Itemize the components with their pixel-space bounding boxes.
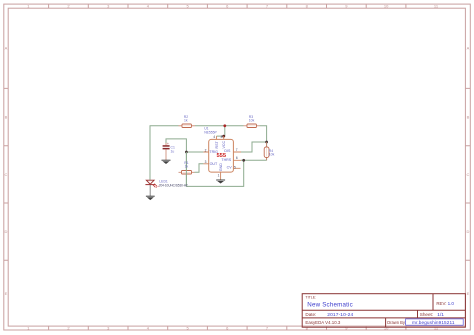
svg-text:1/1: 1/1 xyxy=(437,312,444,318)
svg-text:A: A xyxy=(5,46,8,51)
svg-text:E: E xyxy=(5,291,8,296)
svg-text:B: B xyxy=(467,115,470,120)
svg-text:OUT: OUT xyxy=(210,162,218,166)
svg-text:5: 5 xyxy=(234,165,236,169)
svg-text:TITLE:: TITLE: xyxy=(305,296,316,300)
svg-text:2017-10-24: 2017-10-24 xyxy=(327,312,353,318)
svg-text:Date:: Date: xyxy=(305,312,316,317)
svg-text:1: 1 xyxy=(218,174,220,178)
svg-text:B: B xyxy=(5,115,8,120)
svg-text:1u: 1u xyxy=(171,149,175,153)
svg-text:C: C xyxy=(5,172,8,177)
svg-text:7: 7 xyxy=(236,148,238,152)
svg-text:TRIG: TRIG xyxy=(209,150,218,154)
svg-text:D: D xyxy=(5,229,8,234)
svg-text:2: 2 xyxy=(205,148,207,152)
svg-text:A: A xyxy=(467,46,470,51)
svg-text:DIS: DIS xyxy=(224,149,231,153)
svg-text:10: 10 xyxy=(384,4,389,9)
svg-text:+: + xyxy=(167,142,169,146)
svg-text:VCC: VCC xyxy=(222,141,226,149)
svg-text:New Schematic: New Schematic xyxy=(307,301,353,308)
svg-text:C: C xyxy=(467,172,470,177)
svg-text:6: 6 xyxy=(236,156,238,160)
svg-text:CV: CV xyxy=(227,166,233,170)
svg-text:8: 8 xyxy=(221,135,223,139)
svg-text:4: 4 xyxy=(213,135,215,139)
svg-text:Drawn By:: Drawn By: xyxy=(387,320,406,325)
svg-text:THRS: THRS xyxy=(221,158,231,162)
svg-text:204-10UHC/S530-A2: 204-10UHC/S530-A2 xyxy=(159,183,188,187)
svg-text:1.0: 1.0 xyxy=(448,301,455,306)
svg-text:1k: 1k xyxy=(185,165,189,169)
svg-text:mr.begushin915211: mr.begushin915211 xyxy=(412,320,455,325)
svg-text:RST: RST xyxy=(215,141,219,149)
svg-text:E: E xyxy=(467,291,470,296)
svg-text:EasyEDA V4.10.3: EasyEDA V4.10.3 xyxy=(305,320,340,325)
svg-text:D: D xyxy=(467,229,470,234)
svg-text:3: 3 xyxy=(205,160,207,164)
svg-text:Sheet:: Sheet: xyxy=(420,312,433,317)
svg-text:REV:: REV: xyxy=(436,301,446,306)
svg-text:NE555P: NE555P xyxy=(204,131,217,135)
svg-text:1k: 1k xyxy=(184,119,188,123)
svg-text:10k: 10k xyxy=(269,153,275,157)
svg-text:10: 10 xyxy=(384,326,389,331)
svg-text:GND: GND xyxy=(219,163,223,171)
svg-text:10k: 10k xyxy=(249,118,255,122)
